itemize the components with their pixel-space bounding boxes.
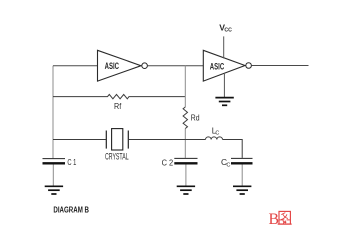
ground (below C1) <box>45 186 63 194</box>
wire: Lc to Cc <box>223 140 243 158</box>
resistor Rd <box>183 107 200 129</box>
svg-text:CRYSTAL: CRYSTAL <box>105 151 129 161</box>
wire: crystal to Lc <box>128 139 205 141</box>
svg-text:C: C <box>226 162 230 168</box>
op-amp U2 ASIC inverter <box>203 50 245 81</box>
ground (below U2) <box>215 98 233 106</box>
ground (below Cc) <box>233 186 251 194</box>
wire: left feedback rail <box>52 66 54 159</box>
wire: C2 to ground <box>185 165 187 186</box>
inverter U2 output bubble <box>246 63 252 69</box>
svg-text:C: C <box>215 131 219 137</box>
inverter U1 output bubble <box>142 63 148 69</box>
op-amp U1 ASIC inverter <box>98 50 142 81</box>
wire: U2 to ground <box>223 74 225 98</box>
svg-text:C 2: C 2 <box>162 157 174 167</box>
wire: C1 to ground <box>52 165 54 186</box>
inductor Lc <box>206 127 223 140</box>
ground (below C2) <box>177 186 195 194</box>
wire: input to first inverter <box>53 65 98 67</box>
capacitor C1 <box>43 157 77 167</box>
svg-text:ASIC: ASIC <box>210 62 225 72</box>
svg-text:C 1: C 1 <box>67 157 76 167</box>
capacitor C2 <box>162 157 198 167</box>
caption CJK tu character (drawn, red) <box>278 211 292 224</box>
svg-text:Rd: Rd <box>191 113 200 122</box>
resistor Rf <box>53 94 185 111</box>
wire: Cc to ground <box>241 165 243 186</box>
svg-text:DIAGRAM B: DIAGRAM B <box>53 205 89 215</box>
wire: U2 output <box>252 65 309 67</box>
wire: U1 output to U2 input <box>148 65 204 67</box>
svg-text:ASIC: ASIC <box>105 61 120 71</box>
wire: Rd down to C2 node <box>184 129 186 158</box>
svg-text:CC: CC <box>224 27 232 33</box>
crystal X1 <box>105 129 129 162</box>
svg-text:B: B <box>269 211 280 228</box>
svg-text:Rf: Rf <box>114 102 122 111</box>
wire: middle vertical node (U1 output junction down) <box>184 66 186 107</box>
capacitor Cc <box>221 157 253 168</box>
wire: left rail to crystal <box>53 139 106 141</box>
power Vcc <box>219 23 232 59</box>
